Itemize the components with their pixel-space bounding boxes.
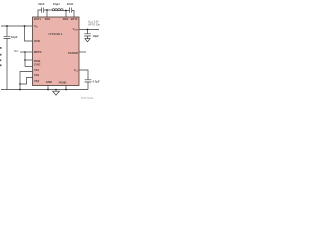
node VS2-VS3 junction — [19, 83, 21, 85]
node PGND-rail junction — [65, 89, 67, 91]
capacitor C2 22nF BST1 — [42, 8, 44, 13]
svg-text:4.7µF: 4.7µF — [92, 79, 99, 83]
svg-text:VS1: VS1 — [34, 68, 40, 72]
svg-text:SW2: SW2 — [63, 17, 69, 21]
capacitor C3 22nF BST2 — [70, 8, 72, 13]
node MPPC-bus junction — [24, 51, 26, 53]
wire RUN tie to VIN — [25, 26, 33, 41]
svg-text:BST2: BST2 — [71, 17, 78, 21]
wire PGOOD stub — [79, 51, 86, 53]
wire SW2 pin — [65, 11, 67, 18]
wire PGND pin drop — [65, 86, 67, 90]
wire C2 to SW1 node — [44, 9, 52, 11]
wire MPPC from VCC — [20, 51, 33, 53]
node label VIN cropped line4 — [0, 64, 2, 66]
wire C3 to BST2 — [72, 11, 74, 18]
svg-text:MPPC: MPPC — [34, 50, 42, 54]
op-amp U1 LTC3130-1 IC body — [33, 17, 80, 86]
node VOUT-cap junction — [87, 29, 89, 31]
svg-text:VS3: VS3 — [34, 79, 40, 83]
svg-text:10µH: 10µH — [53, 2, 60, 6]
wire VS3 to ground bus — [20, 78, 33, 85]
svg-text:VS2: VS2 — [34, 73, 40, 77]
svg-text:PGOOD: PGOOD — [68, 51, 78, 55]
node ground-symbol junction — [55, 89, 57, 91]
svg-text:PWM/: PWM/ — [34, 61, 41, 63]
svg-text:SYNC: SYNC — [34, 65, 41, 67]
wire ground rail — [1, 89, 88, 91]
node SW2-L1 junction — [65, 10, 67, 12]
wire BST1 to C2 — [38, 10, 41, 17]
svg-text:GND: GND — [46, 80, 52, 84]
svg-text:10µF: 10µF — [11, 35, 18, 39]
wire PWM/SYNC — [25, 59, 33, 61]
capacitor C1 input 10uF — [4, 26, 11, 90]
wire VOUT rail — [79, 29, 99, 31]
wire VS1 — [25, 66, 33, 68]
wire GND pin drop — [47, 86, 49, 90]
svg-text:RUN: RUN — [34, 39, 40, 43]
ground symbol main — [53, 90, 60, 96]
svg-text:SW1: SW1 — [45, 17, 51, 21]
node GND-rail junction — [47, 89, 49, 91]
capacitor C4 output 10uF — [84, 30, 91, 39]
wire VCC pin to C5 — [79, 70, 88, 80]
node label VIN cropped line3 — [0, 59, 1, 61]
svg-text:PGND: PGND — [59, 80, 67, 84]
node label VIN cropped line1 — [0, 47, 2, 49]
wire VCC bus vertical — [24, 52, 26, 67]
ground symbol output cap — [85, 39, 90, 42]
wire VS2 to ground bus — [20, 72, 33, 90]
node VS2-rail junction — [19, 89, 21, 91]
svg-text:22nF: 22nF — [67, 2, 74, 6]
svg-text:3130 TA01a: 3130 TA01a — [81, 97, 94, 100]
node PWM-bus junction — [24, 59, 26, 61]
node label VIN cropped line2 — [0, 54, 2, 56]
capacitor C5 VCC 4.7uF — [85, 80, 92, 90]
svg-text:10µF: 10µF — [92, 34, 99, 38]
wire L1 to SW2 node — [63, 10, 69, 12]
inductor L1 10uH — [52, 9, 63, 11]
svg-text:VCC: VCC — [14, 49, 19, 53]
svg-text:UP TO 25mA: UP TO 25mA — [88, 24, 100, 27]
svg-text:22nF: 22nF — [38, 2, 45, 6]
node VIN-cap junction — [6, 25, 8, 27]
svg-text:BST1: BST1 — [34, 17, 41, 21]
wire SW1 pin — [46, 10, 48, 17]
node VIN-RUN junction — [24, 25, 26, 27]
wire VIN rail — [1, 25, 33, 27]
svg-text:LTC3130-1: LTC3130-1 — [49, 32, 63, 36]
node SW1-BST1 cap junction — [46, 9, 48, 11]
